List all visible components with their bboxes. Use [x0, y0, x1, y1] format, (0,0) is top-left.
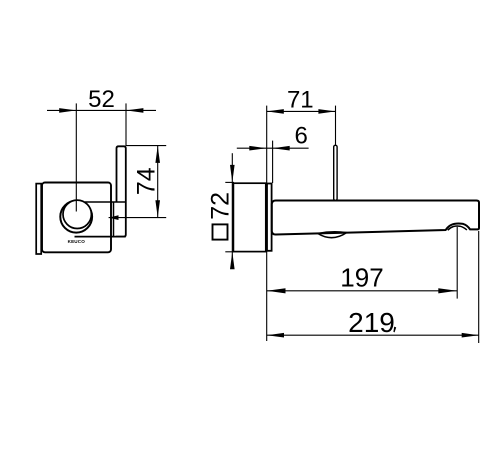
spout outline — [272, 201, 479, 235]
dim 219 comma tick — [393, 327, 396, 333]
dim 71 left extension line — [266, 106, 268, 183]
dim 197 left arrow — [267, 288, 286, 293]
wall face lower extension line — [266, 252, 268, 342]
lever rod (side view) — [334, 145, 337, 200]
dim 74 top extension line — [127, 145, 167, 147]
dim 52 right arrow — [126, 108, 143, 113]
wall body (side view) — [233, 183, 265, 251]
back plate (left view thin rim) — [36, 184, 41, 254]
svg-text:74: 74 — [133, 167, 161, 195]
rosette band (side view) — [267, 184, 272, 251]
front plate (left view rosette) — [42, 183, 111, 253]
dim 6 right arrow — [273, 146, 290, 151]
dim 74 bottom-left small arrow — [109, 215, 119, 220]
dim 72 dimension line — [231, 153, 233, 267]
lever bar (left view) — [116, 146, 126, 236]
svg-text:197: 197 — [340, 263, 383, 293]
dim 71 right arrow — [318, 109, 335, 114]
dim 72 square symbol — [213, 224, 228, 239]
dim 6 left arrow — [249, 146, 266, 151]
dim 52 right extension line — [125, 103, 127, 146]
dim 74 bottom arrow — [155, 200, 160, 217]
svg-text:71: 71 — [287, 86, 314, 113]
dim 71 right extension line — [335, 106, 337, 146]
dim 219 dimension line — [267, 334, 479, 336]
dim 72 bottom extension line — [225, 251, 234, 253]
hub top line — [85, 201, 126, 203]
svg-text:6: 6 — [295, 123, 308, 150]
dim 219 left arrow — [267, 333, 284, 338]
knob inner circle — [63, 200, 91, 228]
hub edge vertical — [113, 202, 115, 237]
dim 197 dimension line — [267, 290, 457, 292]
dim 219 right arrow — [462, 333, 479, 338]
dim 219 right extension line — [478, 231, 480, 343]
svg-text:52: 52 — [88, 86, 115, 113]
dim 197 right extension line — [456, 227, 458, 299]
dim 74 bottom extension line — [109, 217, 167, 219]
svg-text:KEUCO: KEUCO — [68, 239, 86, 244]
dim 52 left extension line — [75, 103, 77, 211]
svg-text:72: 72 — [207, 192, 235, 220]
dim 71 left arrow — [267, 109, 284, 114]
dim 72 top extension line — [225, 181, 234, 183]
dim 197 right arrow — [438, 288, 457, 293]
dim 6 dimension line — [237, 147, 309, 149]
dim 52 left arrow — [59, 108, 76, 113]
dim 6 right extension line — [272, 141, 274, 183]
dim 74 top arrow — [155, 146, 160, 163]
hub bottom line — [75, 236, 126, 238]
svg-text:219: 219 — [348, 307, 395, 338]
dim 52 dimension line — [47, 109, 156, 111]
aerator lens — [318, 232, 347, 238]
dim 71 dimension line — [267, 110, 336, 112]
spout outlet inner arc — [448, 226, 467, 230]
knob outer circle — [60, 201, 92, 233]
dim 72 bottom arrow — [230, 252, 235, 269]
dim 74 dimension line — [157, 146, 159, 217]
dim 72 top arrow — [230, 165, 235, 183]
